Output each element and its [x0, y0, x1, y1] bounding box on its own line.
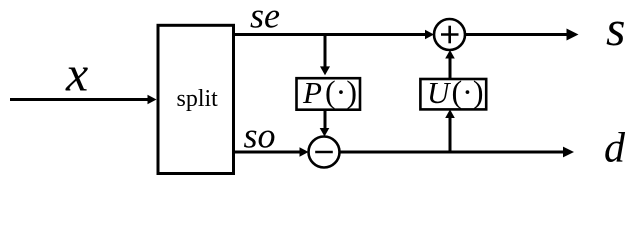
wire subtractor to d output — [340, 151, 564, 154]
svg-text:U: U — [427, 75, 452, 110]
wire branch up to U — [449, 118, 452, 153]
wire U to adder — [449, 58, 452, 80]
box U — [420, 79, 486, 109]
svg-text:se: se — [250, 0, 280, 36]
arrowhead into adder — [425, 30, 434, 40]
svg-text:P: P — [302, 75, 322, 110]
svg-text:s: s — [606, 0, 625, 56]
split box — [158, 25, 234, 173]
svg-text:d: d — [604, 126, 626, 172]
box P — [297, 78, 361, 110]
wire se (split to adder) — [234, 33, 426, 36]
wire input x — [10, 98, 149, 101]
svg-text:x: x — [65, 46, 88, 102]
svg-text:so: so — [244, 116, 276, 156]
arrowhead output d — [563, 147, 574, 158]
wire so (split to subtractor) — [234, 151, 301, 154]
svg-text:(·): (·) — [452, 74, 484, 110]
svg-text:split: split — [177, 86, 219, 112]
arrowhead into adder from below — [445, 50, 455, 59]
wire branch down to P — [324, 35, 327, 68]
arrowhead into split box — [148, 95, 157, 105]
arrowhead output s — [567, 29, 579, 41]
wire P to subtractor — [324, 110, 327, 129]
minus sign — [315, 151, 333, 154]
svg-text:(·): (·) — [325, 74, 357, 110]
wire adder to s output — [465, 33, 568, 36]
plus sign — [441, 33, 459, 36]
arrowhead into U box — [445, 109, 455, 118]
subtractor circle — [309, 137, 340, 168]
adder circle — [434, 19, 465, 50]
arrowhead into subtractor from left — [300, 147, 309, 157]
arrowhead into P box — [320, 66, 330, 75]
arrowhead into subtractor — [320, 128, 330, 137]
